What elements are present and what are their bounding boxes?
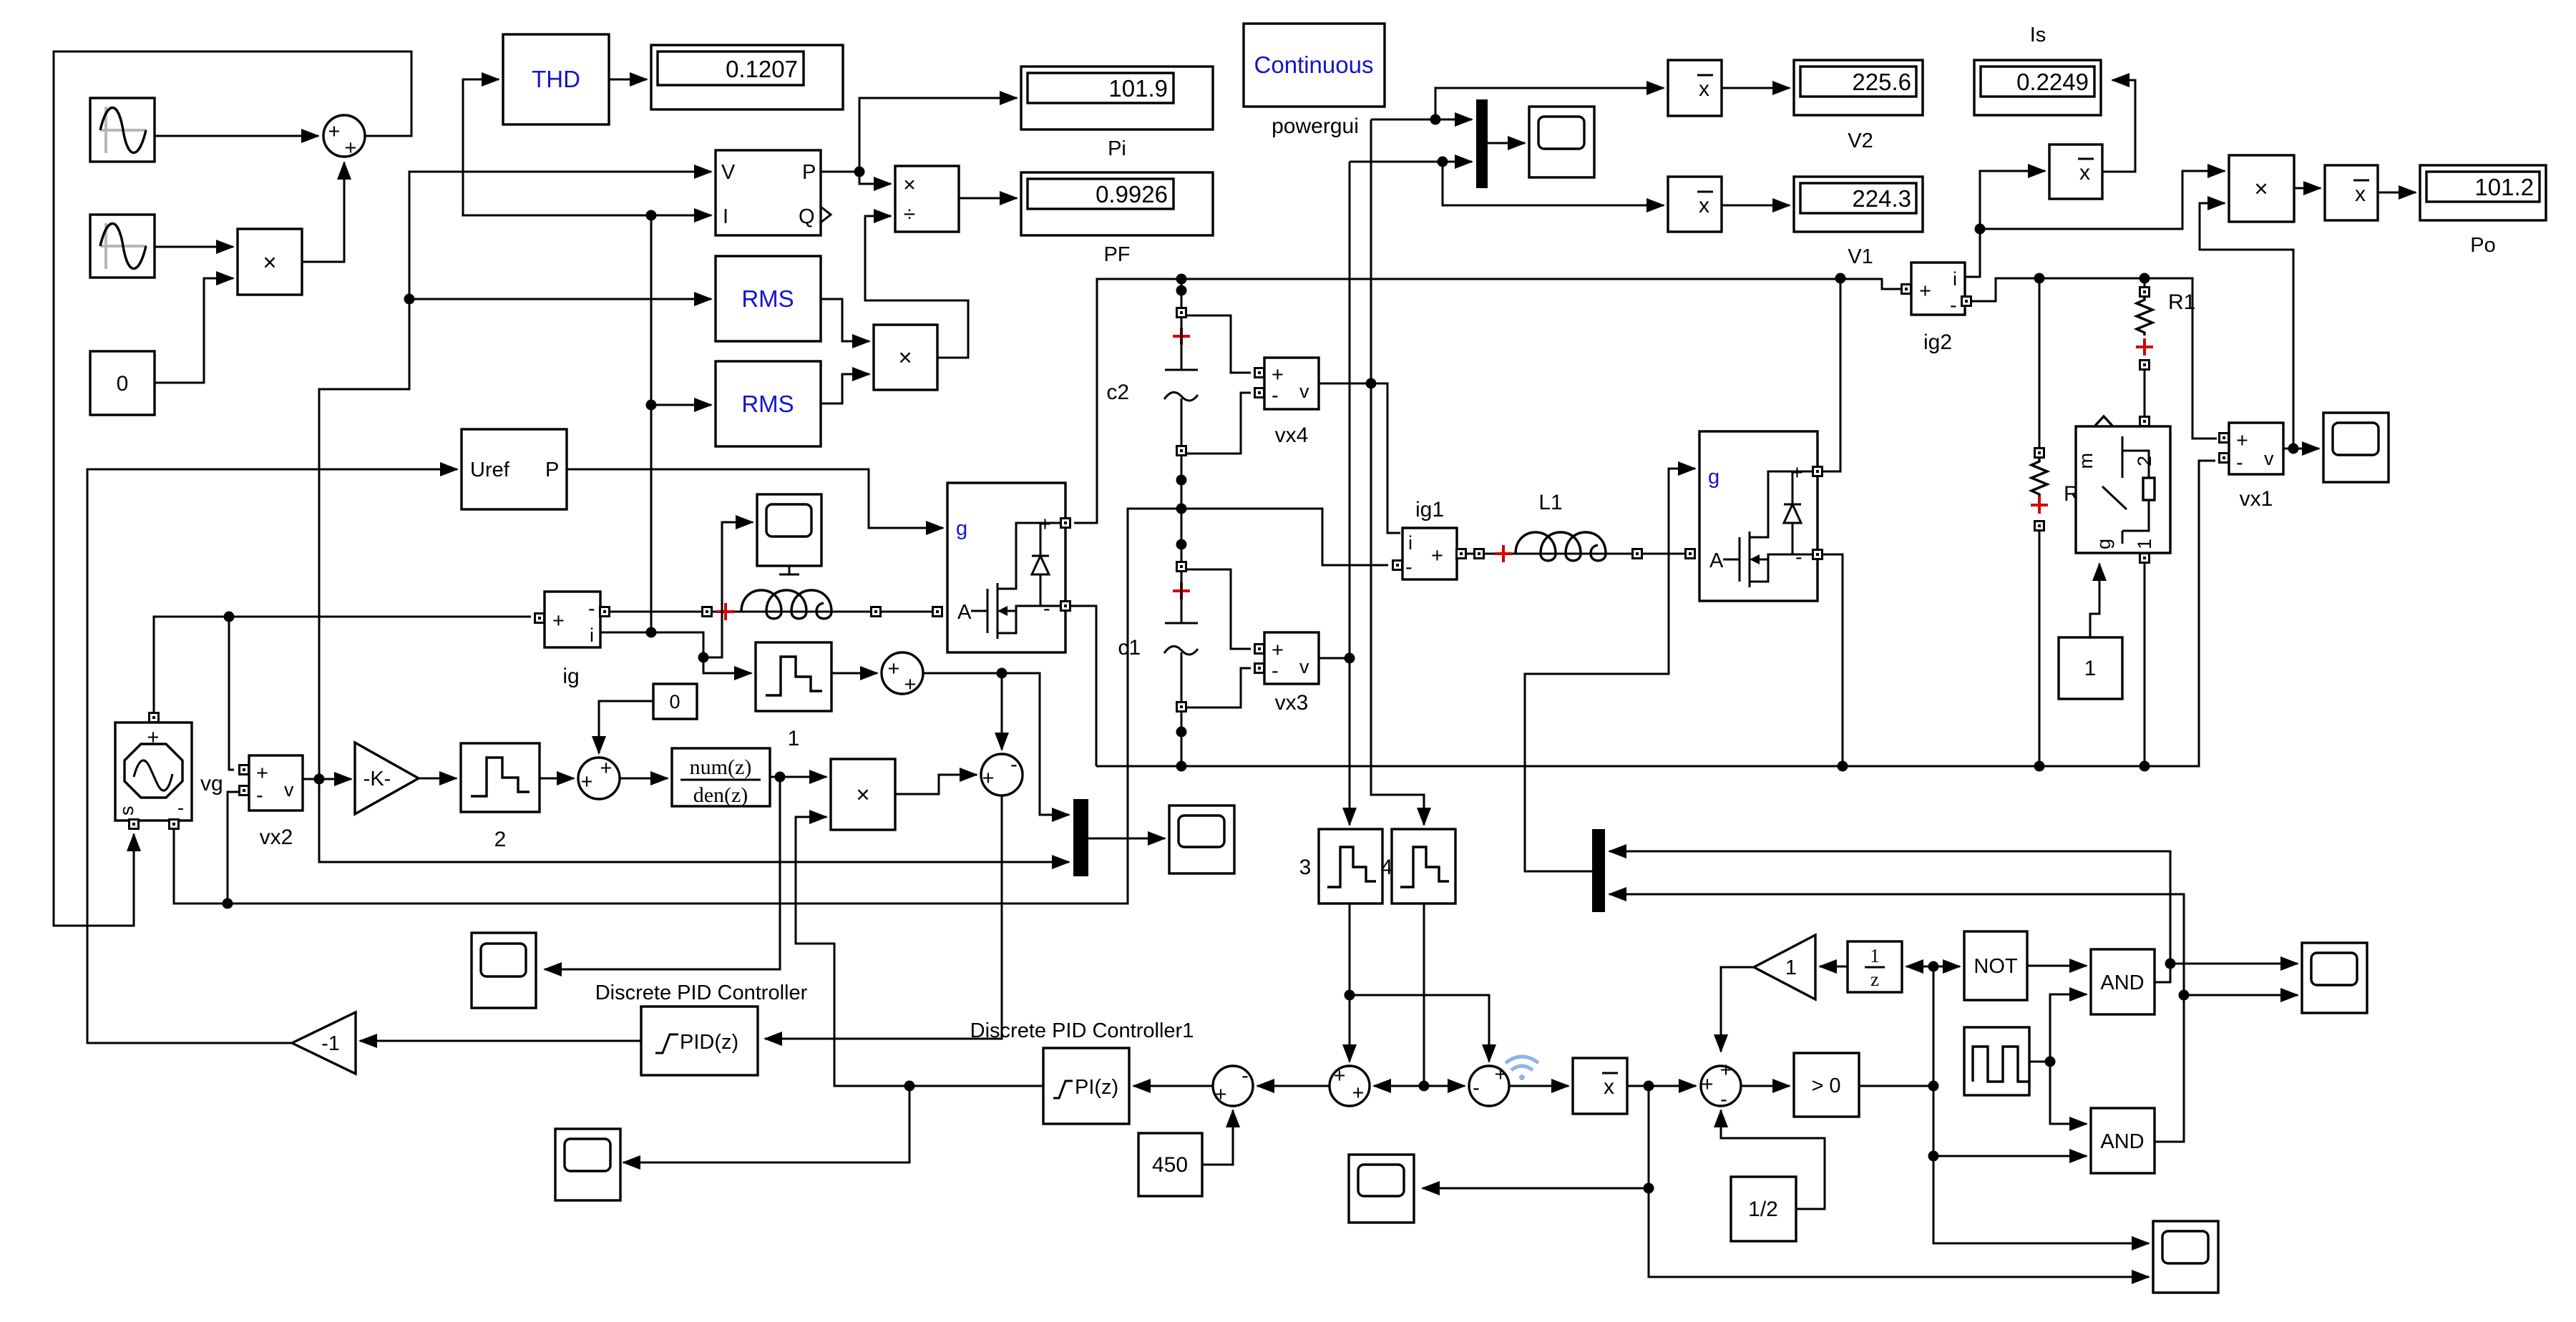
constant 450	[1138, 1133, 1202, 1196]
wire vx2 down to mux	[319, 779, 1069, 862]
wire sampler1 to sum	[831, 672, 877, 675]
unit delay 1/z	[1848, 941, 1902, 992]
discrete PI controller block	[1043, 1048, 1129, 1124]
gain -K-	[355, 743, 419, 814]
svg-text:225.6: 225.6	[1852, 69, 1911, 95]
svg-text:Continuous: Continuous	[1254, 52, 1374, 78]
wire sum to transfer fcn	[620, 778, 668, 780]
wire branch to V2 mean	[1435, 88, 1664, 119]
block AND2	[2091, 1108, 2155, 1173]
block RMS1	[716, 256, 821, 341]
node junctions bottom	[904, 1081, 915, 1092]
wire sum to PI	[1133, 1085, 1213, 1087]
svg-text:+: +	[328, 120, 341, 143]
svg-text:-: -	[2236, 451, 2243, 474]
wire gain1 to sum5 top	[1721, 967, 1754, 1052]
svg-text:RMS: RMS	[741, 391, 794, 417]
svg-text:ig1: ig1	[1415, 498, 1444, 522]
block NOT	[1964, 931, 2027, 1000]
svg-text:V: V	[721, 161, 736, 184]
wire 450 to sum	[1202, 1110, 1233, 1165]
wire switch port1 to rail	[2144, 563, 2146, 766]
svg-text:+: +	[600, 757, 613, 780]
node I branch RMS2	[646, 400, 657, 411]
wire sum2 to PID	[765, 795, 1002, 1039]
wire vx1 plus input	[2192, 438, 2215, 440]
wire divide output to PF display	[959, 197, 1017, 200]
svg-text:1: 1	[788, 727, 800, 750]
svg-text:+: +	[345, 137, 357, 160]
svg-text:NOT: NOT	[1974, 955, 2018, 978]
mean block Is	[2049, 145, 2102, 199]
constant 0	[90, 351, 155, 415]
svg-text:g: g	[2093, 539, 2114, 549]
wire sampler2 to sum	[540, 778, 574, 780]
wire feedback into 1/z	[1906, 966, 1933, 968]
svg-text:÷: ÷	[904, 202, 915, 226]
block ig2 current measurement	[1902, 263, 1971, 354]
svg-text:RMS: RMS	[741, 285, 794, 312]
wire RMS2 to product	[821, 374, 869, 403]
power measurement block V I P Q	[716, 150, 831, 235]
block greater than zero	[1794, 1053, 1859, 1117]
wire pulse out branches	[2029, 994, 2087, 1062]
wire vx4 to ig1 i	[1371, 383, 1400, 533]
wire mosfet2 minus down to rail	[1822, 554, 1843, 766]
block RMS2	[716, 361, 821, 446]
block ig current measurement	[535, 592, 610, 688]
svg-text:4: 4	[1381, 856, 1393, 879]
wire sampler3 down to sum3	[1349, 904, 1351, 1062]
svg-text:-: -	[1272, 660, 1279, 682]
wire vx3 signal vertical to sampler3	[1349, 162, 1351, 825]
sample and hold 4	[1381, 829, 1455, 904]
svg-text:Is: Is	[2030, 24, 2046, 46]
wire PID to gain -1	[360, 1040, 641, 1042]
wire branch to scope	[703, 522, 753, 657]
constant 1/2	[1731, 1177, 1796, 1241]
wire branch to V1 mean	[1443, 162, 1664, 205]
wire ig2 minus to rail right	[1970, 278, 2217, 439]
svg-text:+: +	[1272, 363, 1284, 386]
svg-text:x: x	[1699, 77, 1709, 101]
svg-text:0: 0	[117, 372, 129, 396]
svg-text:224.3: 224.3	[1852, 185, 1911, 212]
powergui block Continuous	[1244, 24, 1385, 138]
svg-text:+: +	[1495, 1063, 1507, 1086]
multiply divide block	[895, 166, 959, 232]
wire sum3 to sum mid	[1257, 1085, 1330, 1087]
wire c2 to vx4	[1186, 315, 1251, 454]
svg-text:PID(z): PID(z)	[680, 1031, 738, 1054]
wire gain -1 to Uref input	[87, 469, 457, 1043]
wire sum1 feedback loop to vg s	[54, 52, 411, 926]
svg-text:THD: THD	[532, 66, 580, 92]
wire constant 1 to switch g	[2090, 564, 2099, 637]
svg-text:V1: V1	[1848, 245, 1873, 268]
wire Po mean to display	[2378, 192, 2416, 194]
wire vg minus rail to capacitor midpoint and ig1	[174, 509, 1388, 904]
display PF 0.9926	[1021, 172, 1213, 266]
svg-text:v: v	[1299, 381, 1309, 402]
wire vg plus to ig plus	[154, 617, 531, 713]
scope currents	[1169, 806, 1234, 873]
svg-text:ig2: ig2	[1923, 330, 1952, 354]
wire vx4 signal vertical to sampler4	[1371, 119, 1424, 825]
wire ig1 to inductor L1 to mosfet2	[1465, 553, 1694, 555]
svg-text:PI(z): PI(z)	[1075, 1076, 1118, 1099]
svg-text:c1: c1	[1118, 636, 1141, 660]
inductor grid	[703, 590, 942, 620]
svg-text:AND: AND	[2100, 1130, 2144, 1153]
svg-text:1: 1	[2134, 539, 2155, 549]
node V branch	[404, 294, 415, 305]
wire vx4 out to vertical	[1319, 383, 1371, 385]
svg-text:x: x	[2079, 161, 2090, 185]
svg-text:x: x	[2355, 182, 2366, 206]
scope PID	[555, 1129, 620, 1200]
wire sampler4 to sum3 right	[1374, 1085, 1424, 1087]
sum2 error	[981, 753, 1023, 795]
svg-text:-: -	[1241, 1064, 1249, 1087]
wire sine2 to product	[155, 246, 233, 248]
wire AND2 out up	[1609, 894, 2184, 1142]
svg-text:1: 1	[2084, 657, 2097, 680]
wire mux to scope	[1488, 142, 1525, 145]
wire 1/2 to sum5 bottom	[1721, 1110, 1825, 1209]
svg-text:i: i	[590, 625, 594, 646]
scope balance	[1349, 1155, 1414, 1223]
wire RMS1 to product	[821, 299, 869, 341]
svg-text:1/2: 1/2	[1748, 1198, 1778, 1221]
svg-text:vx2: vx2	[260, 826, 293, 849]
svg-text:x: x	[1604, 1075, 1614, 1099]
wire mean out to sum5	[1627, 1085, 1696, 1087]
display Is 0.2249	[1974, 60, 2101, 115]
switch block	[2075, 416, 2170, 563]
wire transfer fcn to product	[770, 776, 826, 778]
svg-text:-K-: -K-	[364, 768, 391, 790]
svg-text:0.2249: 0.2249	[2016, 69, 2089, 95]
voltage measurement vx4	[1255, 358, 1319, 447]
wire resistor R1 branch	[2144, 278, 2146, 417]
block AND1	[2091, 949, 2155, 1014]
wire transfer fcn branch to scope	[545, 777, 780, 969]
scope of num den	[472, 933, 536, 1008]
wire V input	[319, 172, 711, 779]
wire mosfet1 minus down to bottom rail	[1070, 606, 1096, 766]
svg-text:v: v	[2264, 448, 2274, 469]
svg-text:-: -	[1010, 753, 1018, 776]
svg-text:-: -	[1473, 1077, 1480, 1100]
wire sum4 to mean	[1509, 1085, 1568, 1087]
resistor R1	[2136, 288, 2195, 370]
sum PI input	[1213, 1064, 1253, 1106]
wire ig i up to I signal	[650, 215, 653, 632]
svg-text:2: 2	[2134, 456, 2155, 466]
node I branch upper	[646, 210, 657, 221]
svg-text:Uref: Uref	[470, 459, 510, 481]
svg-text:> 0: > 0	[1811, 1074, 1840, 1097]
svg-text:num(z): num(z)	[690, 755, 752, 779]
bottom rail	[1096, 461, 2215, 766]
gain -1	[292, 1012, 356, 1074]
wire gain to sampler 2	[419, 778, 457, 780]
wire NOT to AND1	[2027, 965, 2087, 967]
svg-text:Q: Q	[799, 205, 815, 228]
wire mean to display V1	[1722, 205, 1790, 207]
wire top rail from mosfet1 plus	[1074, 279, 1901, 523]
sum vx4 minus	[1469, 1063, 1509, 1106]
svg-text:i: i	[1408, 532, 1413, 554]
wire product to sum2	[895, 775, 977, 794]
wire 0 to product	[155, 278, 233, 383]
svg-text:×: ×	[898, 344, 912, 371]
svg-text:PF: PF	[1103, 243, 1130, 266]
wire ig2 i branch to product	[1980, 171, 2225, 229]
display V2 225.6	[1794, 60, 1923, 152]
wire AND1 out to scope and mux	[1609, 851, 2170, 982]
sine wave source 2	[90, 215, 155, 278]
wire vx4 signal to mux and V2 mean	[1371, 119, 1472, 121]
wire AND2 branch to scope8	[2184, 994, 2298, 997]
wire vx2 minus down to rail	[228, 792, 238, 904]
scope V	[1529, 107, 1594, 177]
svg-text:+: +	[581, 770, 593, 793]
block ig1 current source	[1393, 498, 1466, 579]
node P junction	[854, 167, 865, 177]
product block Po	[2229, 155, 2294, 222]
wire gate2 from mux	[1525, 469, 1695, 871]
node rail junctions	[1835, 273, 1846, 284]
wire pulse to AND2	[2050, 1062, 2087, 1124]
svg-text:3: 3	[1299, 856, 1312, 879]
wire product to divide input	[865, 216, 968, 358]
scope gates	[2302, 943, 2367, 1013]
wifi icon	[1506, 1057, 1538, 1080]
svg-text:v: v	[1299, 656, 1309, 677]
wire ig2 i to Is mean	[1965, 171, 2045, 277]
wire sampler4 down	[1423, 904, 1425, 1086]
wire ig minus to inductor to mosfet A	[609, 611, 943, 613]
wire sampler3 branch to sum4	[1350, 995, 1489, 1062]
svg-text:×: ×	[2254, 175, 2268, 202]
svg-text:-: -	[1272, 384, 1279, 407]
wire vx1 output to scope	[2283, 448, 2319, 450]
wire mean branch down to scope9	[1423, 1086, 1649, 1188]
capacitor chain vertical	[1181, 279, 1183, 766]
capacitor c1	[1118, 562, 1198, 712]
svg-text:+: +	[982, 767, 995, 790]
svg-text:+: +	[2236, 429, 2248, 452]
mux of iref and ig	[1073, 799, 1088, 876]
product block RMS x RMS	[874, 325, 937, 390]
svg-text:+: +	[1919, 280, 1931, 303]
svg-text:×: ×	[903, 173, 916, 197]
svg-text:vg: vg	[200, 772, 223, 795]
svg-text:s: s	[116, 806, 137, 816]
display V1 224.3	[1794, 177, 1923, 268]
svg-text:-: -	[177, 797, 184, 818]
svg-text:1: 1	[1870, 945, 1880, 966]
wire PI out branch to scope	[623, 1086, 909, 1162]
wire sampler4 to sum4 left	[1424, 1085, 1465, 1087]
mean block V2	[1668, 60, 1722, 116]
wire Is mean to display	[2102, 80, 2135, 172]
wire product to sum1	[302, 162, 344, 262]
svg-text:-: -	[1720, 1088, 1727, 1111]
svg-text:450: 450	[1152, 1153, 1188, 1177]
block Uref P	[462, 429, 567, 509]
gain 1	[1754, 935, 1815, 999]
wire branch to vx2 plus	[229, 617, 234, 770]
mux gating signals	[1592, 829, 1605, 912]
display Po 101.2	[2420, 165, 2546, 257]
voltage measurement vx1	[2220, 423, 2284, 511]
svg-text:+: +	[1352, 1082, 1365, 1105]
svg-text:-: -	[588, 597, 595, 620]
svg-text:V2: V2	[1848, 129, 1873, 152]
display Pi 101.9	[1021, 67, 1213, 160]
capacitor c2	[1106, 308, 1198, 456]
voltage measurement vx2	[240, 755, 303, 849]
svg-text:vx1: vx1	[2240, 487, 2273, 511]
wire sum out to mux and sum2	[923, 673, 1069, 815]
mosfet block 1	[947, 483, 1065, 652]
wire resistor R branch	[2039, 278, 2041, 766]
svg-text:+: +	[1215, 1083, 1227, 1106]
svg-text:×: ×	[263, 249, 276, 275]
svg-text:L1: L1	[1538, 491, 1562, 514]
mux for scope V	[1476, 99, 1488, 188]
svg-text:c2: c2	[1106, 381, 1129, 404]
svg-text:I: I	[723, 205, 728, 228]
wire down to AND2 and scope	[1933, 1086, 2087, 1156]
pulse generator	[1964, 1027, 2029, 1095]
svg-text:Discrete PID Controller1: Discrete PID Controller1	[970, 1019, 1194, 1042]
bottom right scope	[2153, 1221, 2218, 1293]
wire P to Pi display	[859, 98, 1017, 172]
mean block balance	[1573, 1058, 1627, 1114]
scope ig	[757, 494, 821, 574]
svg-text:0.9926: 0.9926	[1096, 181, 1168, 207]
wire THD input from I signal	[463, 79, 651, 215]
block THD	[503, 34, 609, 124]
svg-text:-: -	[1950, 294, 1957, 317]
svg-text:P: P	[802, 161, 816, 184]
wire THD to display	[609, 79, 647, 81]
svg-text:0.1207: 0.1207	[726, 56, 798, 82]
product block (sine2 x 0)	[238, 229, 302, 295]
svg-text:P: P	[545, 459, 559, 481]
svg-text:-: -	[1405, 556, 1413, 579]
wire RMS2 input	[651, 404, 711, 406]
svg-text:+: +	[1334, 1064, 1346, 1087]
svg-text:101.9: 101.9	[1108, 75, 1168, 102]
wire vx1 output to product	[2200, 203, 2293, 449]
wire I input	[651, 215, 711, 217]
svg-text:Po: Po	[2470, 234, 2495, 257]
svg-text:-: -	[1043, 597, 1050, 620]
svg-text:0: 0	[669, 691, 680, 713]
wire mux to scope	[1088, 838, 1165, 840]
sample and hold 2	[461, 743, 540, 851]
constant 0 upper	[653, 684, 697, 719]
svg-text:101.2: 101.2	[2474, 174, 2534, 200]
svg-text:vx3: vx3	[1275, 691, 1309, 715]
sine wave source 1	[90, 98, 155, 162]
svg-text:AND: AND	[2100, 971, 2144, 994]
wire PI out to product and scope	[796, 817, 1043, 1086]
sum1 circle	[323, 115, 365, 160]
mosfet block 2	[1699, 431, 1818, 601]
mean block V1	[1668, 177, 1722, 232]
sum compare	[1701, 1059, 1741, 1111]
svg-text:m: m	[2075, 453, 2097, 469]
sum vg plus zero	[578, 757, 620, 799]
wire 0 to sum top	[599, 701, 653, 753]
svg-text:+: +	[552, 609, 565, 632]
sample and hold 1	[756, 642, 831, 750]
scope vx1	[2323, 413, 2389, 482]
sample and hold 3	[1299, 829, 1382, 904]
wire junction to NOT	[1933, 966, 1960, 968]
svg-text:g: g	[956, 517, 967, 540]
wire c1 to vx3	[1186, 569, 1251, 707]
wire vx3 out	[1319, 657, 1350, 660]
discrete PID controller block	[641, 1007, 758, 1075]
svg-text:x: x	[1699, 194, 1709, 217]
svg-text:+: +	[1702, 1073, 1714, 1096]
svg-text:-: -	[256, 784, 263, 807]
voltage measurement vx3	[1255, 632, 1319, 715]
constant 1	[2059, 637, 2122, 699]
svg-text:+: +	[904, 673, 917, 696]
svg-text:+: +	[1272, 639, 1284, 662]
svg-text:i: i	[1953, 268, 1957, 290]
svg-text:-1: -1	[321, 1032, 340, 1055]
svg-text:R1: R1	[2168, 290, 2195, 314]
wire sum5 to greater zero	[1741, 1085, 1790, 1087]
wire ig i output	[600, 632, 751, 673]
product current ref	[831, 759, 895, 830]
resistor R	[2031, 449, 2079, 531]
sum vx3 plus vx4	[1330, 1064, 1370, 1106]
wire 1/z out to gain1	[1820, 966, 1848, 968]
display THD 0.1207	[651, 45, 843, 109]
svg-text:+: +	[1431, 544, 1443, 567]
svg-text:ig: ig	[562, 665, 579, 688]
wire product to Po mean	[2294, 187, 2321, 190]
sum ig plus ref	[882, 652, 923, 696]
node junctions middle	[224, 612, 235, 622]
svg-text:Pi: Pi	[1108, 137, 1126, 160]
svg-text:vx4: vx4	[1275, 423, 1309, 447]
svg-text:+: +	[147, 726, 160, 749]
svg-text:×: ×	[856, 781, 869, 808]
wire mean to display V2	[1722, 87, 1790, 89]
wire vx3 signal to mux and V1 mean	[1350, 161, 1472, 163]
svg-text:+: +	[256, 762, 268, 785]
svg-text:2: 2	[494, 828, 507, 851]
wire vx2 out to gain	[303, 778, 351, 780]
mean block Po	[2325, 165, 2378, 220]
wire Uref P to mosfet1 gate	[567, 469, 943, 528]
svg-text:den(z): den(z)	[693, 783, 748, 807]
wire greater zero out	[1859, 966, 1933, 1086]
svg-text:A: A	[957, 601, 972, 624]
wire mean branch to bottom scope	[1649, 1188, 2149, 1277]
